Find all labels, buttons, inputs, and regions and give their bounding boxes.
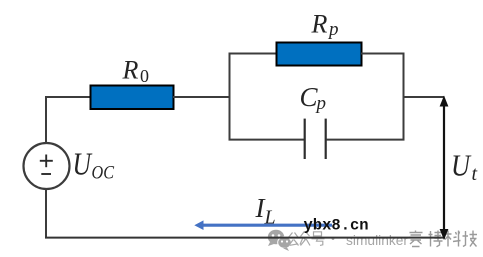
wire left vertical lower [45, 189, 47, 239]
capacitor Cp [305, 119, 326, 159]
watermark text 公 [288, 233, 299, 246]
watermark logo (gray chat bubbles) [268, 230, 292, 251]
measurement arrow Ut [440, 96, 449, 241]
label Rp [311, 9, 339, 40]
wire bottom horizontal [45, 237, 445, 239]
svg-text:p: p [315, 93, 327, 114]
wire parallel block right vertical [403, 53, 405, 141]
resistor Rp [277, 43, 362, 66]
svg-text:U: U [451, 147, 472, 182]
label IL [255, 193, 276, 229]
current arrow IL [194, 220, 332, 230]
label Cp [300, 82, 327, 114]
svg-text:R: R [311, 9, 328, 38]
watermark text 众 [300, 232, 310, 246]
svg-text:p: p [327, 19, 339, 40]
svg-text:U: U [73, 146, 93, 182]
svg-text:ybx8.cn: ybx8.cn [304, 217, 369, 235]
svg-text:0: 0 [140, 66, 149, 86]
svg-text:t: t [472, 163, 478, 185]
wire parallel block top left [229, 53, 278, 55]
label R0 [122, 55, 150, 86]
wire parallel block top right [361, 53, 405, 55]
wire top-left horizontal [45, 96, 91, 98]
wire R0 to parallel block [173, 96, 231, 98]
svg-text:L: L [264, 207, 276, 229]
wire parallel block left vertical [229, 53, 231, 141]
svg-text:R: R [122, 55, 139, 84]
watermark text 博 [429, 231, 443, 247]
resistor R0 [91, 86, 174, 110]
label Ut [451, 147, 478, 185]
watermark text 号 [312, 232, 325, 246]
watermark text 技 [463, 231, 478, 247]
watermark separator [332, 237, 335, 240]
wire capacitor right [327, 139, 405, 141]
wire capacitor left [229, 139, 305, 141]
wire block to Ut arrow [404, 96, 445, 98]
voltage source U_OC [24, 143, 70, 189]
label U_OC [73, 146, 115, 184]
svg-text:OC: OC [92, 163, 115, 184]
watermark text 科 [445, 231, 461, 247]
wire left vertical upper [45, 96, 47, 144]
watermark text 赛 [409, 231, 423, 247]
